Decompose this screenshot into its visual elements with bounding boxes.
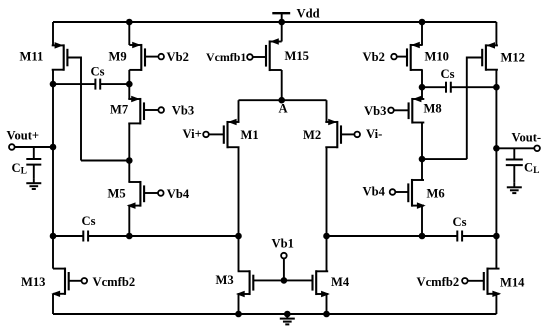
transistor M9 — [129, 42, 164, 71]
svg-text:M2: M2 — [303, 128, 321, 142]
transistor M5 — [128, 181, 164, 208]
junction dot ground-rail — [284, 311, 291, 318]
wire M15 source to Vdd — [281, 22, 283, 42]
wire M1 drain column — [238, 147, 240, 236]
svg-text:M4: M4 — [331, 275, 350, 289]
capacitor Cs bottom-right — [457, 231, 462, 242]
junction dot M4 source rail — [323, 311, 330, 318]
svg-text:Cs: Cs — [82, 214, 96, 228]
junction dot Cs right-cap left node — [419, 84, 426, 91]
power Vdd supply symbol — [272, 13, 290, 22]
wire Cs top-right left seg — [422, 86, 446, 88]
svg-text:M7: M7 — [110, 103, 128, 117]
wire M14 source to rail — [495, 294, 497, 314]
junction dot bus M2/M4 column — [323, 233, 330, 240]
wire Cs top-left right seg — [100, 83, 129, 85]
transistor M6 — [390, 179, 425, 208]
junction dot M11 drain - Cs — [50, 81, 57, 88]
svg-text:M13: M13 — [21, 275, 45, 289]
wire M2 drain column — [326, 147, 328, 236]
svg-text:Vb3: Vb3 — [364, 104, 386, 118]
junction dot M9-Vdd — [126, 19, 133, 26]
wire bus right segment B — [462, 235, 496, 237]
svg-text:Vb2: Vb2 — [167, 50, 189, 64]
svg-text:Vb2: Vb2 — [363, 50, 385, 64]
wire M12 source to Vdd — [495, 22, 497, 45]
wire M13 source to rail — [52, 294, 54, 314]
wire M8 drain — [421, 123, 423, 160]
wire M11 source to Vdd — [52, 22, 54, 45]
svg-text:M1: M1 — [241, 128, 259, 142]
svg-text:M5: M5 — [108, 187, 126, 201]
junction dot Vout+ bus — [50, 233, 57, 240]
svg-text:M3: M3 — [216, 273, 234, 287]
svg-text:M6: M6 — [427, 187, 445, 201]
terminal Vout- — [534, 146, 540, 152]
wire Cs top-left left seg — [53, 83, 96, 85]
wire M3 source to rail — [238, 294, 240, 314]
transistor M13 — [52, 268, 87, 297]
wire ground bottom rail — [53, 313, 496, 315]
svg-text:M10: M10 — [425, 50, 449, 64]
transistor M4 — [313, 270, 330, 297]
transistor M14 — [462, 268, 500, 297]
svg-text:Cs: Cs — [453, 215, 467, 229]
svg-text:M11: M11 — [20, 50, 44, 64]
transistor M8 — [388, 96, 424, 123]
terminal Vout+ — [9, 144, 15, 150]
wire M9 drain — [128, 70, 130, 84]
junction dot node A — [278, 97, 285, 104]
junction dot folded node right — [419, 156, 426, 163]
junction dot Vout- tap — [493, 145, 500, 152]
wire M4 drain — [326, 236, 328, 271]
transistor M10 — [391, 42, 423, 71]
capacitor Cs top-right — [446, 82, 451, 93]
wire Cs top-right right seg — [451, 86, 497, 88]
wire M8 source — [421, 87, 423, 99]
junction dot M3 source rail — [235, 311, 242, 318]
wire M6 drain — [421, 159, 423, 180]
wire M11 gate elbow — [67, 58, 81, 161]
junction dot M5 source bus — [126, 233, 133, 240]
junction dot bus M1/M3 column — [235, 233, 242, 240]
ground CL right — [507, 183, 522, 193]
svg-text:Vcmfb1: Vcmfb1 — [206, 50, 246, 64]
wire bus right segment A — [327, 235, 458, 237]
junction dot folded node left — [126, 157, 133, 164]
wire M10 source to Vdd — [421, 22, 423, 45]
svg-text:Vout+: Vout+ — [7, 129, 40, 143]
svg-text:Vb4: Vb4 — [167, 187, 190, 201]
junction dot Cs left-cap right node — [126, 81, 133, 88]
transistor M2 — [325, 119, 360, 148]
svg-text:Vcmfb2: Vcmfb2 — [93, 275, 136, 289]
svg-text:M8: M8 — [424, 102, 442, 116]
svg-text:Vout-: Vout- — [512, 131, 542, 145]
junction dot M6 source bus — [419, 233, 426, 240]
wire bus left segment B — [88, 235, 238, 237]
svg-text:M14: M14 — [500, 275, 525, 289]
capacitor CL right — [506, 148, 523, 182]
junction dot Vout+ tap — [50, 144, 57, 151]
wire bus left segment A — [53, 235, 83, 237]
wire M10 drain — [421, 70, 423, 87]
wire M15 drain to node A — [281, 70, 283, 100]
transistor M3 — [237, 270, 254, 297]
wire node A horizontal — [239, 99, 327, 101]
wire M8/M6 to M12 gate — [422, 158, 467, 160]
svg-text:Vb1: Vb1 — [272, 237, 294, 251]
terminal Vb1 — [281, 253, 287, 259]
capacitor Cs top-left — [95, 79, 100, 90]
wire M6 source — [421, 206, 423, 236]
svg-text:Vi-: Vi- — [366, 127, 382, 141]
wire M7 source — [128, 84, 130, 99]
wire Vdd top rail — [53, 21, 496, 23]
svg-text:Vb3: Vb3 — [172, 104, 194, 118]
svg-text:Vi+: Vi+ — [183, 127, 202, 141]
svg-text:Vcmfb2: Vcmfb2 — [417, 275, 460, 289]
wire Vb1 stub — [283, 258, 285, 280]
svg-text:Cs: Cs — [441, 67, 455, 81]
wire M12 drain / Vout- column — [495, 70, 497, 269]
capacitor Cs bottom-left — [83, 231, 88, 242]
svg-text:A: A — [279, 102, 288, 116]
wire M3/M4 gates — [253, 279, 312, 281]
transistor M15 — [247, 39, 282, 71]
transistor M11 — [52, 43, 68, 71]
svg-text:Cs: Cs — [91, 65, 105, 79]
ground center — [280, 314, 295, 324]
junction dot M10-Vdd — [419, 19, 426, 26]
svg-text:Vdd: Vdd — [297, 6, 320, 20]
wire Vout- lead — [496, 147, 534, 149]
junction dot bus far-right — [493, 233, 500, 240]
wire M4 source to rail — [326, 294, 328, 314]
capacitor CL left — [26, 147, 41, 179]
wire Vout+ lead — [15, 146, 53, 148]
wire M7 drain — [128, 123, 130, 160]
ground CL left — [26, 179, 41, 189]
svg-text:M15: M15 — [285, 49, 309, 63]
junction dot Vb1 gate node — [281, 277, 288, 284]
transistor M7 — [128, 96, 164, 124]
wire M3 drain — [238, 236, 240, 271]
svg-text:Vb4: Vb4 — [363, 184, 386, 198]
transistor M12 — [482, 43, 498, 71]
wire M2 source — [326, 100, 328, 122]
wire M12 gate elbow — [467, 58, 482, 160]
wire M5 source — [128, 206, 130, 236]
wire M9 source to Vdd — [128, 22, 130, 45]
svg-text:M12: M12 — [501, 51, 525, 65]
wire M5 drain — [128, 161, 130, 183]
junction dot Vdd center — [278, 19, 285, 26]
wire M11 drain / Vout+ column — [52, 70, 54, 269]
wire M7/M5 to M11 gate — [81, 160, 129, 162]
wire M1 source — [238, 100, 240, 122]
transistor M1 — [203, 119, 239, 148]
svg-text:M9: M9 — [109, 50, 127, 64]
junction dot M12 drain - Cs — [493, 84, 500, 91]
